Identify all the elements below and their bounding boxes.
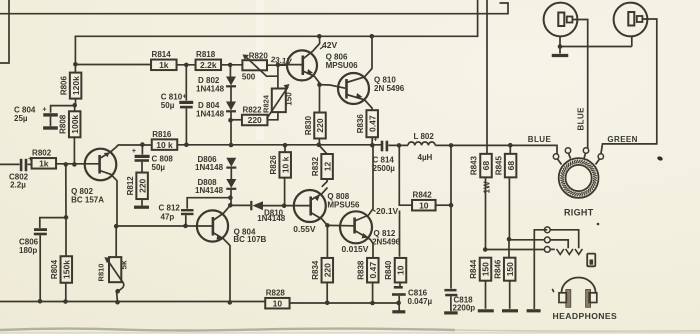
- wire L802 right: [435, 145, 557, 154]
- resistor R832: [319, 145, 327, 154]
- svg-text:10 k: 10 k: [156, 140, 173, 150]
- svg-text:2N5496: 2N5496: [372, 237, 401, 246]
- svg-text:50µ: 50µ: [152, 163, 166, 172]
- svg-text:0.015V: 0.015V: [342, 244, 369, 254]
- resistor R804: [61, 256, 73, 283]
- wire R816 right: [177, 144, 381, 146]
- capacitor C806: [40, 218, 66, 228]
- wire top-left stub: [0, 0, 9, 63]
- svg-text:R814: R814: [152, 50, 172, 59]
- wire lamp1 ground: [559, 36, 561, 54]
- node after L802: [449, 143, 454, 148]
- wire Q808 collector to Q812 base: [327, 224, 353, 226]
- wire D808 down: [230, 190, 232, 206]
- svg-text:0.55V: 0.55V: [293, 224, 316, 234]
- svg-text:+: +: [42, 105, 47, 114]
- svg-text:BLUE: BLUE: [528, 135, 552, 144]
- node R830 bottom: [317, 143, 322, 148]
- resistor R836: [366, 110, 378, 137]
- transistor Q802: [85, 149, 117, 181]
- svg-text:50µ: 50µ: [161, 101, 175, 110]
- svg-text:2.2k: 2.2k: [200, 60, 217, 70]
- resistor R844: [480, 258, 492, 281]
- capacitor C812: [187, 198, 230, 209]
- node Q806 base: [276, 63, 281, 68]
- node R810 bottom: [115, 300, 120, 305]
- wire Q804 base line: [116, 225, 212, 227]
- resistor R828: [265, 298, 289, 309]
- resistor R816: [152, 139, 178, 150]
- rheostat R810: [115, 226, 117, 257]
- svg-text:R816: R816: [152, 130, 172, 139]
- svg-text:150k: 150k: [62, 260, 72, 279]
- node C816 / rail end: [396, 301, 401, 306]
- node bias/diodes: [228, 63, 233, 68]
- svg-text:10: 10: [273, 298, 283, 308]
- svg-text:68: 68: [506, 161, 516, 171]
- node diode chain mid: [229, 143, 234, 148]
- svg-text:R804: R804: [50, 259, 59, 279]
- wire R802 to base: [56, 163, 98, 165]
- node output R836: [370, 143, 375, 148]
- transistor Q808: [294, 190, 326, 222]
- wire jack switch bottom: [550, 248, 555, 250]
- wire R814-R818: [177, 64, 196, 66]
- svg-text:0.47: 0.47: [368, 262, 378, 279]
- svg-text:47p: 47p: [161, 213, 175, 222]
- svg-text:220: 220: [137, 178, 147, 192]
- svg-text:68: 68: [481, 161, 491, 171]
- resistor R808: [69, 111, 81, 137]
- svg-text:C816: C816: [408, 288, 428, 297]
- node Q804 collector: [228, 203, 233, 208]
- wire main line: [117, 144, 152, 146]
- svg-text:1N4148: 1N4148: [196, 109, 225, 118]
- transistor Q806: [287, 50, 317, 80]
- resistor R830: [319, 85, 321, 113]
- node R810 wiper: [115, 289, 120, 294]
- svg-text:R843: R843: [470, 155, 479, 175]
- transistor Q812: [340, 211, 372, 243]
- svg-text:+: +: [183, 94, 187, 101]
- capacitor C804: [51, 106, 75, 113]
- resistor R806: [70, 73, 82, 99]
- svg-text:R842: R842: [413, 190, 433, 199]
- wire D802-D804: [230, 87, 232, 102]
- node R834 top: [325, 223, 330, 228]
- svg-text:R824: R824: [261, 94, 270, 113]
- svg-text:R806: R806: [59, 75, 68, 95]
- node R842 right: [449, 203, 454, 208]
- wire jack switch top: [550, 230, 578, 249]
- node R845 top: [508, 143, 513, 148]
- svg-text:R812: R812: [126, 176, 135, 196]
- jack plug: [587, 254, 595, 267]
- node R845/R846 jack: [507, 237, 512, 242]
- node C806 bottom: [38, 299, 43, 304]
- diode D808: [226, 179, 236, 188]
- resistor R802: [28, 163, 32, 165]
- node Q806 emitter: [317, 82, 322, 87]
- diode D810: [230, 204, 250, 206]
- wire input: [0, 163, 20, 165]
- rheostat R824: [272, 89, 286, 113]
- node Q808 base / R826: [282, 203, 287, 208]
- node R808 bottom: [72, 162, 77, 167]
- headphones icon: [562, 278, 596, 293]
- bottom page edge: [0, 329, 455, 331]
- wire jack switch middle: [550, 240, 568, 248]
- svg-text:180p: 180p: [19, 246, 37, 255]
- svg-text:R828: R828: [266, 288, 286, 297]
- node L802/R842: [397, 143, 402, 148]
- svg-text:R834: R834: [311, 260, 320, 280]
- svg-text:BC 157A: BC 157A: [71, 195, 104, 204]
- svg-text:+: +: [132, 146, 137, 155]
- resistor R843: [480, 154, 492, 178]
- svg-text:220: 220: [323, 263, 333, 277]
- svg-text:L 802: L 802: [414, 132, 435, 141]
- svg-text:4µH: 4µH: [418, 153, 433, 162]
- node C808: [140, 142, 145, 147]
- svg-text:2500µ: 2500µ: [373, 164, 396, 173]
- wire lamp2 to ground node: [560, 46, 632, 48]
- svg-text:25µ: 25µ: [14, 114, 28, 123]
- resistor R845: [509, 145, 511, 154]
- speaker terminals: [553, 154, 558, 159]
- svg-text:BC 107B: BC 107B: [233, 235, 266, 244]
- svg-text:100k: 100k: [70, 115, 80, 134]
- node Q810 rail: [370, 34, 375, 39]
- node R834 bottom: [325, 301, 330, 306]
- svg-text:150: 150: [285, 92, 294, 106]
- resistor R838: [367, 258, 379, 283]
- svg-text:42V: 42V: [322, 40, 337, 50]
- svg-text:2200p: 2200p: [453, 304, 476, 313]
- svg-text:220: 220: [315, 118, 325, 132]
- wire jack contact bottom: [485, 249, 544, 251]
- capacitor C818: [444, 289, 456, 292]
- svg-text:10 k: 10 k: [280, 156, 290, 173]
- svg-text:R830: R830: [304, 115, 313, 135]
- svg-text:R844: R844: [469, 259, 478, 279]
- svg-text:R838: R838: [357, 260, 366, 280]
- node Q804 emitter bottom: [228, 300, 233, 305]
- svg-text:1N4148: 1N4148: [257, 214, 286, 223]
- resistor R834: [326, 225, 328, 258]
- wire base bias line: [75, 64, 150, 66]
- svg-text:R802: R802: [32, 149, 52, 158]
- wire D806-D808: [230, 169, 232, 180]
- jack chevrons: [557, 249, 564, 255]
- wire R818 to node: [221, 64, 243, 66]
- node R826 top: [283, 143, 288, 148]
- wire diode chain upper: [229, 65, 231, 77]
- svg-text:R836: R836: [356, 114, 365, 134]
- resistor R840: [399, 211, 401, 257]
- svg-text:150: 150: [481, 262, 491, 276]
- resistor R846: [508, 239, 510, 258]
- svg-text:R818: R818: [196, 50, 216, 59]
- svg-text:R832: R832: [311, 156, 320, 176]
- ground R812: [134, 206, 149, 209]
- node C812 bottom: [183, 224, 188, 229]
- svg-text:HEADPHONES: HEADPHONES: [553, 311, 618, 321]
- svg-text:R840: R840: [384, 260, 393, 280]
- svg-text:2N 5496: 2N 5496: [374, 84, 405, 93]
- resistor R822: [242, 115, 268, 126]
- lamp socket right: [614, 3, 648, 37]
- wire R824 bottom to R822: [267, 112, 278, 120]
- svg-text:1k: 1k: [159, 60, 169, 70]
- svg-text:500: 500: [242, 73, 256, 82]
- capacitor C816: [394, 286, 403, 289]
- svg-text:+: +: [373, 135, 378, 144]
- wire +42V top rail: [0, 3, 508, 14]
- svg-text:1N4148: 1N4148: [196, 84, 225, 93]
- wire R822 left to chain: [231, 119, 243, 121]
- svg-text:220: 220: [248, 115, 262, 125]
- svg-text:R808: R808: [58, 114, 67, 134]
- wire lamp1 to speaker BLUE: [572, 20, 587, 149]
- svg-text:5k: 5k: [120, 260, 129, 269]
- svg-text:R820: R820: [249, 52, 269, 61]
- wire lamp2 GREEN: [601, 19, 657, 154]
- wire to C818: [450, 145, 452, 288]
- wire long vertical to R843: [486, 0, 488, 154]
- node C812 top: [228, 195, 233, 200]
- svg-text:10: 10: [396, 265, 406, 275]
- wire C814 to L802: [388, 144, 408, 146]
- svg-text:1N4148: 1N4148: [195, 186, 224, 195]
- svg-text:MPSU06: MPSU06: [326, 61, 359, 70]
- ink blemish: [657, 156, 664, 162]
- node Q806 rail: [317, 34, 322, 39]
- jack contact circles: [544, 227, 550, 233]
- svg-text:120k: 120k: [71, 76, 81, 95]
- node C810 bottom: [184, 143, 189, 148]
- node R822 left: [228, 118, 233, 123]
- wire R820 right: [267, 64, 287, 66]
- node C806 top: [64, 215, 69, 220]
- node R838 bottom: [370, 301, 375, 306]
- transistor Q804: [197, 210, 228, 241]
- svg-text:RIGHT: RIGHT: [564, 208, 594, 218]
- speaker RIGHT: [559, 158, 599, 198]
- wire second rail to R806: [75, 0, 477, 64]
- resistor R826: [284, 145, 286, 152]
- svg-text:1k: 1k: [39, 159, 49, 169]
- node C810 top: [184, 63, 189, 68]
- diode D804: [226, 102, 236, 111]
- svg-text:20.1V: 20.1V: [376, 206, 399, 216]
- wire R824 top to base node: [277, 65, 279, 89]
- wire feedback column: [65, 164, 67, 256]
- svg-text:R822: R822: [242, 105, 262, 114]
- svg-text:12: 12: [322, 162, 332, 172]
- svg-text:150: 150: [505, 262, 515, 276]
- rheostat R820: [242, 60, 267, 70]
- wire jack ground contact: [534, 230, 547, 309]
- node feedback column: [64, 162, 69, 167]
- diode D802: [226, 77, 236, 86]
- svg-text:BLUE: BLUE: [577, 107, 586, 131]
- svg-text:10: 10: [419, 200, 429, 210]
- lamp socket left: [544, 3, 578, 37]
- diode D806: [226, 158, 236, 167]
- node R843/R844 jack: [483, 247, 488, 252]
- svg-text:R846: R846: [493, 259, 502, 279]
- resistor R814: [151, 60, 177, 71]
- svg-text:1W: 1W: [483, 181, 492, 193]
- svg-text:0.47: 0.47: [367, 115, 377, 132]
- resistor R842: [399, 145, 412, 205]
- svg-text:2.2µ: 2.2µ: [10, 181, 26, 190]
- resistor R812: [136, 173, 148, 200]
- transistor Q810: [338, 73, 369, 104]
- wire bottom rail: [0, 301, 265, 303]
- node R806 top: [73, 62, 78, 67]
- capacitor C802: [20, 159, 23, 171]
- svg-text:0.047µ: 0.047µ: [408, 297, 433, 306]
- svg-text:1N4148: 1N4148: [195, 163, 224, 172]
- wire D804 to R822 node: [230, 112, 232, 146]
- svg-text:R845: R845: [494, 155, 503, 175]
- inductor L802: [408, 142, 435, 145]
- node R806/R808/C804: [72, 103, 77, 108]
- wire jack contact middle: [509, 239, 544, 241]
- svg-text:C 812: C 812: [159, 204, 181, 213]
- node R804 bottom: [63, 299, 68, 304]
- node Q802 collector / R810: [114, 224, 119, 229]
- svg-text:MPSU56: MPSU56: [327, 201, 360, 210]
- svg-text:GREEN: GREEN: [607, 135, 637, 144]
- capacitor C810: [185, 65, 187, 101]
- svg-text:R826: R826: [269, 155, 278, 175]
- resistor R818: [196, 60, 222, 71]
- svg-text:R810: R810: [97, 264, 106, 282]
